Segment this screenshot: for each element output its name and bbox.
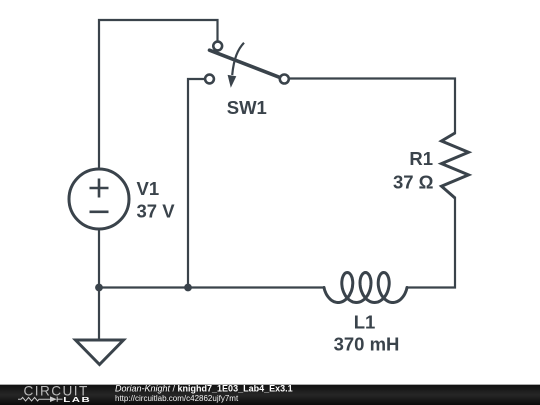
switch SW1 top throw terminal	[213, 42, 222, 51]
svg-text:L1: L1	[354, 312, 376, 333]
svg-text:R1: R1	[409, 148, 433, 169]
svg-text:Dorian-Knight / knighd7_1E03_L: Dorian-Knight / knighd7_1E03_Lab4_Ex3.1	[115, 384, 293, 394]
svg-text:370 mH: 370 mH	[334, 334, 400, 355]
svg-text:SW1: SW1	[227, 97, 267, 118]
wire bottom: node A right to inductor L1	[99, 286, 324, 288]
wire SW1 left throw to middle vertical down to bottom node	[188, 79, 204, 288]
V1 plus sign	[90, 179, 109, 198]
switch SW1 arrowhead	[228, 75, 237, 88]
resistor R1 zigzag	[442, 133, 469, 198]
svg-text:http://circuitlab.com/c42862uj: http://circuitlab.com/c42862ujfy7mt	[115, 394, 239, 403]
wire R1 bottom down and left to inductor L1 right end	[407, 198, 455, 288]
ground symbol	[76, 340, 124, 365]
node B junction dot	[184, 284, 192, 292]
voltage source V1 circle	[69, 169, 129, 229]
V1 minus sign	[90, 211, 109, 214]
logo diode triangle	[50, 396, 57, 402]
svg-text:V1: V1	[137, 178, 160, 199]
node A junction dot	[95, 284, 103, 292]
switch SW1 left throw terminal	[205, 75, 214, 84]
switch SW1 blade	[210, 50, 280, 77]
wire top loop: V1+ up and right to SW1 top terminal	[99, 20, 218, 169]
wire V1- down through node A to ground	[98, 229, 100, 340]
svg-text:37 Ω: 37 Ω	[393, 172, 434, 193]
inductor L1 coil	[324, 273, 407, 303]
switch SW1 common terminal	[280, 75, 289, 84]
CircuitLab logo wire-resistor-diode glyph	[18, 397, 63, 402]
switch SW1 actuation arrow	[232, 43, 244, 75]
svg-text:LAB: LAB	[63, 396, 91, 405]
svg-text:37 V: 37 V	[137, 201, 176, 222]
wire SW1 common right and down to R1 top	[289, 79, 456, 134]
